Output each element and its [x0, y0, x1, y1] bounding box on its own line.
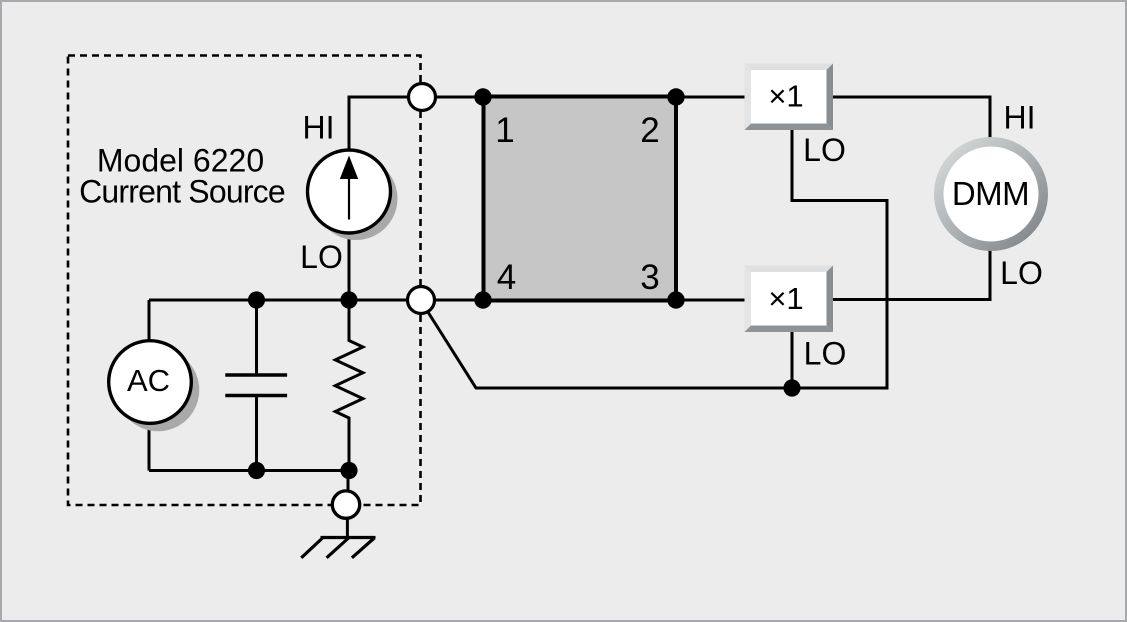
svg-text:×1: ×1 — [768, 79, 803, 114]
svg-text:HI: HI — [1004, 100, 1036, 136]
svg-text:LO: LO — [1000, 255, 1043, 291]
svg-text:2: 2 — [640, 111, 659, 150]
DMM meter ring — [939, 142, 1044, 247]
wire guard diagonal and LO return — [421, 130, 887, 388]
wire AC source top — [148, 300, 151, 342]
junction dot bottom rail resistor — [340, 462, 357, 479]
current source I shadow — [315, 157, 398, 240]
svg-text:×1: ×1 — [768, 281, 803, 316]
wire DMM LO to bottom x1 buffer — [832, 249, 990, 300]
open terminal ground — [332, 491, 359, 518]
svg-text:LO: LO — [300, 239, 343, 275]
AC source shadow — [117, 349, 200, 432]
wire bottom x1 LO drop — [791, 332, 794, 388]
open terminal LO output — [408, 287, 435, 314]
DUT square sample — [484, 97, 677, 301]
buffer U1 x1 top box — [745, 64, 834, 131]
wire capacitor top — [255, 300, 258, 375]
svg-text:AC: AC — [127, 363, 170, 398]
node 1 terminal dot — [474, 88, 491, 105]
wire ground stem upper — [347, 471, 350, 506]
wire AC source bottom — [148, 421, 151, 471]
svg-text:LO: LO — [803, 132, 846, 168]
buffer U2 x1 bottom box — [745, 266, 834, 333]
junction dot LO rail resistor — [340, 291, 357, 308]
svg-text:Current Source: Current Source — [79, 173, 285, 209]
wire HI from current source to top rail — [349, 97, 483, 151]
svg-text:DMM: DMM — [952, 175, 1029, 212]
ground chassis symbol — [301, 538, 375, 558]
junction dot LO rail capacitor — [248, 291, 265, 308]
current source I circle — [308, 150, 391, 233]
svg-text:HI: HI — [303, 110, 335, 146]
AC source circle — [109, 341, 192, 424]
svg-text:1: 1 — [495, 111, 514, 150]
svg-text:4: 4 — [497, 258, 516, 297]
wire x1 buffer to DMM HI — [831, 97, 990, 139]
resistor R — [335, 300, 363, 471]
dashed enclosure Model 6220 — [68, 56, 421, 506]
wire capacitor bottom — [255, 396, 258, 471]
wire ground stem lower — [346, 517, 349, 538]
capacitor C — [225, 375, 287, 396]
wire bottom rail — [149, 469, 349, 472]
wire LO rail — [149, 299, 746, 302]
node 2 terminal dot — [667, 88, 684, 105]
svg-text:LO: LO — [804, 336, 847, 372]
open terminal top output — [409, 84, 436, 111]
svg-text:3: 3 — [640, 258, 659, 297]
node 4 terminal dot — [474, 291, 491, 308]
wire current source LO — [348, 233, 351, 300]
wire top rail square to x1 buffer — [676, 96, 746, 99]
junction dot bottom rail capacitor — [248, 462, 265, 479]
label Model 6220 Current Source — [79, 142, 285, 209]
junction dot LO return — [783, 379, 800, 396]
node 3 terminal dot — [667, 291, 684, 308]
current source arrow — [340, 156, 358, 220]
